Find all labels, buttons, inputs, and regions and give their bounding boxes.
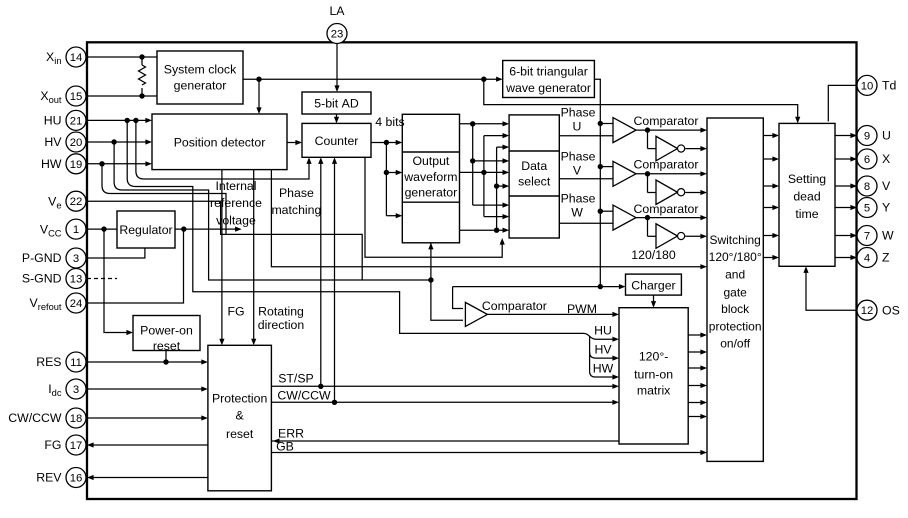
svg-text:waveform: waveform [403,170,457,184]
svg-text:Td: Td [882,79,897,93]
wire HV to position detector [87,141,150,143]
svg-text:10: 10 [861,80,874,92]
pin 3 circle [66,248,86,268]
block 5-bit AD [302,92,371,114]
wire HV branch to control net [114,142,431,280]
svg-text:turn-on: turn-on [634,367,673,381]
wire Idc to protection block [87,388,205,390]
svg-text:6: 6 [864,154,870,166]
pin 16 circle [66,468,86,488]
svg-text:time: time [795,207,818,221]
label LA and pin 23 [327,4,347,44]
svg-text:Z: Z [882,251,890,265]
inverter V [656,180,685,205]
block output waveform generator [402,114,459,243]
pin 20 circle [66,132,86,152]
wire PWM to matrix [487,313,617,315]
wire phase V from data select [559,178,613,180]
svg-text:120/180: 120/180 [631,248,676,262]
svg-text:22: 22 [70,196,83,208]
wire S-GND stub (dashed) [87,278,117,280]
svg-text:System clock: System clock [164,63,237,77]
svg-text:21: 21 [70,115,83,127]
pin 7 circle [857,226,877,246]
svg-text:Output: Output [412,154,449,168]
wire HW to position detector [87,163,150,165]
svg-text:Power-on: Power-on [140,324,193,338]
svg-text:3: 3 [73,384,79,396]
block regulator [117,211,175,248]
svg-text:HW: HW [593,362,614,376]
block position detector [152,114,287,170]
wire Ve to control net [87,201,362,280]
svg-text:Comparator: Comparator [634,202,699,216]
svg-text:14: 14 [70,52,83,64]
svg-text:P-GND: P-GND [22,251,62,265]
svg-text:dead: dead [793,190,821,204]
svg-text:FG: FG [44,438,61,452]
svg-text:direction: direction [258,318,305,332]
wire ST/SP from protection to matrix and counter [271,385,617,387]
wire Xout to system clock generator [87,95,157,97]
svg-text:4 bits: 4 bits [375,115,404,129]
svg-text:LA: LA [329,4,345,18]
svg-text:ERR: ERR [278,427,304,441]
block power-on reset [133,316,200,354]
pin 1 circle [66,219,86,239]
block counter [302,123,371,157]
pin 12 circle [857,300,877,320]
svg-text:Y: Y [882,201,890,215]
wire power-on reset to RES line [165,351,167,363]
block data select [509,115,559,238]
wire HU hall signal to 120-turn-on matrix [127,120,617,339]
block system clock generator [157,51,243,104]
wire phase matching: HU branch to counter [136,120,309,179]
svg-text:generator: generator [174,79,227,93]
svg-text:120°/180°: 120°/180° [709,250,762,264]
svg-text:7: 7 [864,231,870,243]
wire HW hall signal to 120-turn-on matrix [102,164,226,235]
pin 18 circle [66,408,86,428]
svg-text:HU: HU [44,114,62,128]
pin 21 circle [66,110,86,130]
svg-text:Comparator: Comparator [634,157,699,171]
PWM comparator triangle [465,302,487,326]
pin 14 circle [66,47,86,67]
wire waveform B to data select [460,171,508,173]
wire triangular wave to charger [453,286,624,288]
wire triangular wave to PWM comparator [453,287,463,309]
svg-text:select: select [518,175,551,189]
svg-text:17: 17 [70,440,83,452]
pin 6 circle [857,149,877,169]
wire FG from position detector to protection [221,170,223,343]
wire REV output from protection block [90,477,208,479]
block protection and reset [208,345,272,491]
data select section dividers [509,150,559,152]
svg-text:HV: HV [594,343,612,357]
svg-text:Regulator: Regulator [119,223,172,237]
svg-text:9: 9 [864,131,870,143]
svg-text:U: U [573,120,582,134]
svg-text:18: 18 [70,413,83,425]
svg-text:on/off: on/off [720,336,750,350]
svg-text:Position detector: Position detector [174,136,266,150]
svg-text:FG: FG [227,304,244,318]
svg-text:block: block [721,302,750,316]
block switching 120/180 and gate block protection [707,118,763,461]
wire CW/CCW from protection to matrix and counter [271,401,617,403]
svg-text:HV: HV [44,135,62,149]
comparator W triangle [613,205,636,230]
block charger [626,274,682,295]
svg-text:15: 15 [70,91,83,103]
svg-text:&: & [236,408,245,422]
svg-text:REV: REV [36,471,62,485]
svg-text:Internal: Internal [215,179,256,193]
svg-text:generator: generator [405,186,458,200]
svg-text:Data: Data [521,159,547,173]
block 120-turn-on matrix [619,308,688,444]
inverter W [656,224,685,249]
svg-text:Phase: Phase [279,186,314,200]
svg-text:matching: matching [271,203,321,217]
svg-text:4: 4 [864,253,870,265]
wire LA pin to 5-bit AD [336,43,338,91]
wire triangular wave bus [594,79,600,286]
svg-text:matrix: matrix [637,384,671,398]
svg-text:and: and [725,268,745,282]
svg-text:V: V [882,179,891,193]
svg-text:19: 19 [70,159,83,171]
svg-text:Phase: Phase [561,192,596,206]
svg-text:GB: GB [276,440,294,454]
wire FG output from protection block [90,444,208,446]
wire P-GND to regulator [87,248,145,258]
pin 13 circle [66,269,86,289]
pin 15 circle [66,86,86,106]
outer IC boundary frame [87,42,857,499]
wire ERR from matrix to protection [271,440,619,442]
pin 10 circle [857,75,877,95]
pin 9 circle [857,126,877,146]
svg-text:Phase: Phase [561,106,596,120]
svg-text:Phase: Phase [561,150,596,164]
wire position detector to counter [287,142,300,144]
svg-text:reset: reset [226,427,254,441]
svg-text:8: 8 [864,181,870,193]
wire 5-bit AD to counter [336,114,338,121]
svg-text:Counter: Counter [315,134,359,148]
wire waveform A to data select [460,123,508,125]
svg-text:5: 5 [864,203,870,215]
pin 3 circle [66,379,86,399]
svg-text:reset: reset [153,339,181,353]
wire rotating direction from position detector to protection [253,170,255,343]
svg-text:Setting: Setting [788,172,826,186]
wire counter to data select [365,157,502,257]
arrowheads [145,118,152,123]
wires matrix to switching [688,334,705,336]
inverter U [656,136,685,161]
svg-text:Protection: Protection [212,392,268,406]
svg-text:W: W [882,229,894,243]
svg-text:U: U [882,129,891,143]
svg-text:3: 3 [73,253,79,265]
svg-text:HU: HU [594,324,612,338]
svg-text:wave generator: wave generator [505,81,591,95]
wire phase U from data select [559,135,613,137]
comparator V triangle [613,161,636,186]
pin 11 circle [66,352,86,372]
svg-text:Charger: Charger [631,279,675,293]
svg-text:W: W [571,205,583,219]
wire control net to output waveform generator and PWM comparator [431,243,463,320]
pin 24 circle [66,293,86,313]
wire phase W from data select [559,222,613,224]
svg-text:V: V [573,163,582,177]
wire GB to switching block [271,452,705,454]
comparator U triangle [613,118,636,143]
svg-text:OS: OS [882,303,900,317]
wire OS pin to setting dead time [806,268,857,310]
svg-text:13: 13 [70,274,83,286]
pin 22 circle [66,191,86,211]
pin 5 circle [857,198,877,218]
wire HU to position detector [87,119,150,121]
wire CW/CCW pin to protection block [87,417,205,419]
wires switching to setting dead time [763,135,777,137]
wire RES to protection block [87,361,205,363]
svg-text:5-bit AD: 5-bit AD [314,97,359,111]
pin 17 circle [66,435,86,455]
pin 19 circle [66,154,86,174]
svg-text:120°-: 120°- [639,350,669,364]
pin 4 circle [857,248,877,268]
svg-text:16: 16 [70,473,83,485]
svg-text:11: 11 [70,357,82,369]
svg-text:Comparator: Comparator [634,114,699,128]
wires setting dead time to output pins [835,135,855,137]
svg-text:reference: reference [210,196,262,210]
svg-text:1: 1 [73,224,79,236]
svg-text:12: 12 [861,305,874,317]
wire charger to matrix [653,295,655,306]
svg-text:ST/SP: ST/SP [278,372,314,386]
svg-text:20: 20 [70,137,83,149]
block 6-bit triangular wave generator [503,61,595,98]
pin 8 circle [857,176,877,196]
svg-text:HW: HW [41,157,62,171]
svg-text:PWM: PWM [567,302,597,316]
svg-text:X: X [882,152,890,166]
resistor between Xin and Xout lines [141,57,143,65]
svg-text:CW/CCW: CW/CCW [8,411,62,425]
svg-text:23: 23 [331,29,344,41]
svg-text:protection: protection [709,320,762,334]
wire system clock to setting dead time [484,79,798,121]
wire VCC to regulator [87,228,117,230]
wire VCC branch to power-on reset [104,229,130,332]
wire hall bus fan-out to matrix [589,337,591,372]
svg-text:gate: gate [723,285,747,299]
output waveform generator section dividers [402,151,459,153]
wire 120/180 select from position detector to switching block [271,170,705,267]
junction dots [139,54,144,59]
svg-text:S-GND: S-GND [22,272,62,286]
svg-text:Switching: Switching [709,233,760,247]
wire comparator V outputs [636,173,705,175]
wire Xin to system clock generator [87,56,157,58]
svg-text:Comparator: Comparator [482,299,547,313]
wire comparator U outputs [636,129,705,131]
wire system clock to position detector [258,79,260,112]
wire waveform C to data select [460,229,508,231]
svg-text:CW/CCW: CW/CCW [277,388,331,402]
svg-text:voltage: voltage [216,214,256,228]
wire Vrefout to regulator output [87,229,184,303]
wire counter 4-bit output to output waveform generator [371,142,400,144]
wire Td pin to setting dead time [828,85,857,121]
svg-text:24: 24 [70,298,83,310]
wire system clock output [243,78,501,80]
block setting dead time [779,123,835,266]
svg-text:6-bit triangular: 6-bit triangular [509,65,588,79]
svg-text:Rotating: Rotating [258,304,304,318]
wire regulator internal reference voltage output [175,228,239,230]
wire comparator W outputs [636,217,705,219]
svg-text:RES: RES [36,355,61,369]
